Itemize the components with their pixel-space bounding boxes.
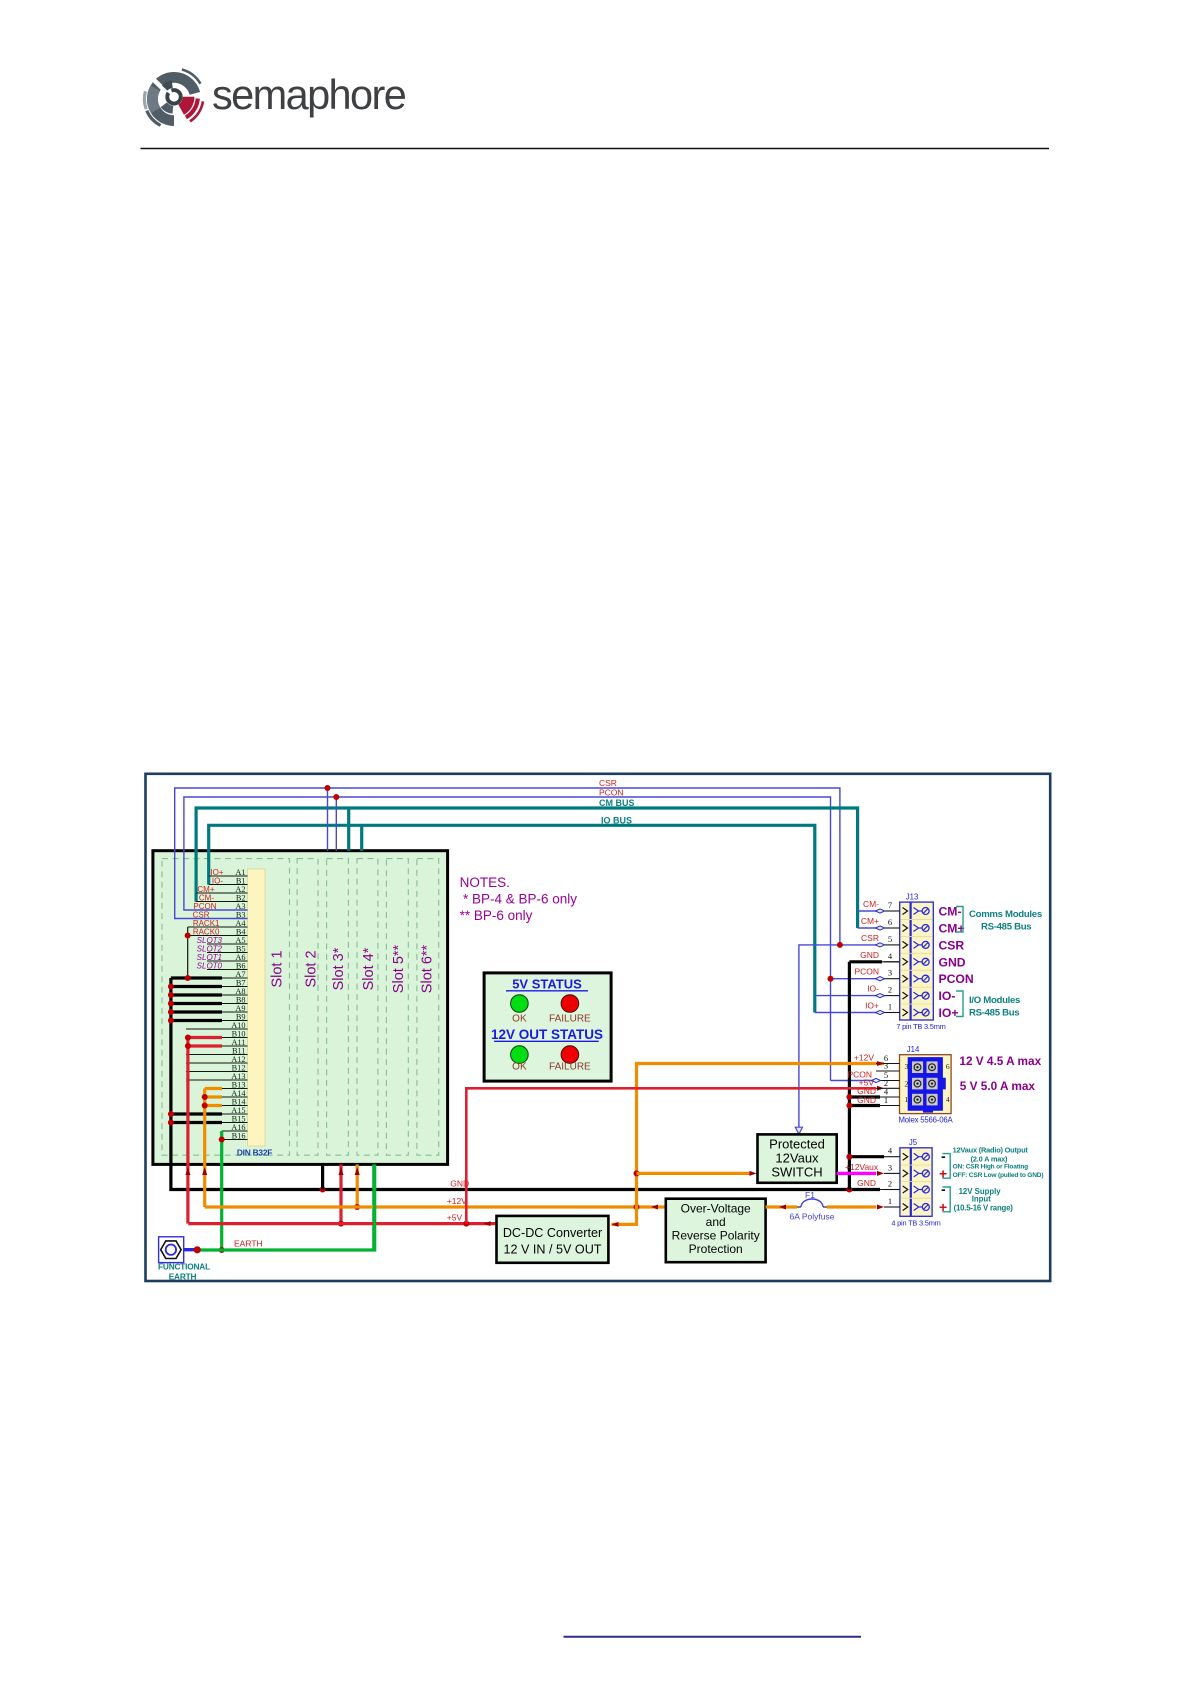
- block Over-Voltage and Reverse Polarity Protection: [666, 1199, 766, 1263]
- backplane pin A6 lead: [207, 960, 248, 962]
- bracket comms modules: [956, 907, 963, 933]
- svg-text:CSR: CSR: [599, 778, 617, 788]
- wire EARTH green horizontal: [197, 1164, 375, 1250]
- svg-text:GND: GND: [857, 1178, 876, 1188]
- svg-text:7: 7: [888, 900, 892, 910]
- svg-text:Over-Voltage: Over-Voltage: [681, 1202, 751, 1216]
- svg-text:I/O Modules: I/O Modules: [969, 995, 1020, 1006]
- slot 6 dashed outline: [417, 859, 439, 1156]
- connector J14 stub pin 3: [876, 1070, 900, 1072]
- connector J5 row pin 4: [884, 1156, 900, 1158]
- wire +5V to J14 pin2: [466, 1088, 876, 1223]
- backplane pin B2 lead: [196, 901, 247, 903]
- wire 12V input orange to J5 pin1: [827, 1205, 876, 1208]
- wire PCON drop to slots: [335, 797, 337, 851]
- wire IO- to J13: [815, 995, 884, 997]
- slot 4 dashed outline: [357, 859, 378, 1156]
- wire +12V orange vertical from B13: [203, 1089, 206, 1208]
- wire CM+ to J13: [858, 927, 884, 929]
- bus entry PCON: [876, 977, 885, 981]
- wire slot +12V vertical: [356, 1164, 359, 1207]
- svg-text:7 pin TB 3.5mm: 7 pin TB 3.5mm: [896, 1022, 945, 1031]
- backplane pin B12 lead: [186, 1071, 248, 1073]
- connector J14 pin cavity r2c1: [912, 1078, 923, 1090]
- backplane pin A2 lead: [196, 892, 247, 894]
- svg-text:RS-485 Bus: RS-485 Bus: [981, 922, 1031, 933]
- bus entry CSR: [876, 943, 885, 947]
- LED 12V OK green: [511, 1046, 529, 1064]
- backplane pin B14 lead (+12V orange): [205, 1104, 222, 1107]
- arrow 12V input into J5: [877, 1205, 884, 1210]
- wire +12V rail: [205, 1205, 666, 1208]
- wire GND trunk vertical right: [848, 962, 851, 1190]
- wire slot GND vertical: [321, 1164, 324, 1189]
- svg-text:+: +: [939, 1166, 947, 1182]
- slot 2 dashed outline: [297, 859, 318, 1156]
- slot 1 dashed outline: [162, 859, 290, 1156]
- svg-text:5V STATUS: 5V STATUS: [512, 977, 582, 992]
- svg-text:NOTES.: NOTES.: [460, 875, 510, 890]
- svg-text:IO-: IO-: [939, 989, 956, 1003]
- block DC-DC Converter: [497, 1216, 609, 1263]
- backplane pin B16 lead: [222, 1139, 248, 1141]
- bus entry CM+: [876, 926, 885, 930]
- wire EARTH green vertical from A16/B16: [220, 1131, 223, 1250]
- svg-text:OK: OK: [512, 1061, 527, 1072]
- bracket io modules: [956, 991, 963, 1017]
- svg-text:Protection: Protection: [689, 1242, 743, 1256]
- wire +5V rail: [188, 1222, 496, 1225]
- svg-text:* BP-4 & BP-6 only: * BP-4 & BP-6 only: [463, 892, 577, 907]
- arrow +5V rail from DC-DC: [484, 1221, 491, 1226]
- svg-text:Slot 4*: Slot 4*: [361, 947, 377, 990]
- svg-text:PCON: PCON: [854, 967, 879, 977]
- svg-text:Reverse Polarity: Reverse Polarity: [672, 1229, 760, 1243]
- svg-text:GND: GND: [939, 955, 966, 969]
- wire GND left trunk vertical: [171, 978, 880, 1190]
- backplane pin B1 lead: [209, 884, 248, 886]
- wire CM BUS drop to slots: [347, 808, 350, 851]
- backplane pin A8 lead (GND thick): [171, 993, 222, 996]
- svg-text:Molex 5566-06A: Molex 5566-06A: [899, 1115, 954, 1124]
- connector J14 pin cavity r1c2: [927, 1061, 938, 1073]
- backplane pin B3 lead (CSR): [175, 918, 248, 920]
- svg-text:B16: B16: [232, 1131, 246, 1140]
- svg-text:2: 2: [905, 1080, 909, 1089]
- backplane pin A12 lead: [186, 1062, 248, 1064]
- connector J14 pin cavity r2c2: [927, 1078, 938, 1090]
- svg-text:and: and: [706, 1215, 726, 1229]
- svg-text:DIN B32F: DIN B32F: [237, 1148, 272, 1158]
- svg-text:2: 2: [888, 1179, 892, 1189]
- backplane box: [153, 851, 448, 1165]
- svg-text:(10.5-16 V range): (10.5-16 V range): [954, 1203, 1014, 1212]
- svg-text:J13: J13: [906, 892, 919, 901]
- wire IO BUS drop to slots: [360, 825, 363, 851]
- backplane pin A9 lead (GND thick): [171, 1010, 222, 1013]
- svg-text:CM-: CM-: [863, 899, 879, 909]
- svg-text:(2.0 A max): (2.0 A max): [971, 1154, 1008, 1163]
- svg-text:OK: OK: [512, 1014, 527, 1025]
- svg-text:12 V IN / 5V OUT: 12 V IN / 5V OUT: [504, 1243, 602, 1257]
- svg-text:CM+: CM+: [861, 916, 879, 926]
- backplane pin A3 lead (PCON): [184, 909, 248, 911]
- connector J13 row IO+ pin 1: [884, 1012, 900, 1014]
- svg-text:FUNCTIONAL: FUNCTIONAL: [158, 1262, 210, 1272]
- wire PCON to J14: [831, 1080, 877, 1082]
- connector J14 blue shell: [908, 1057, 946, 1113]
- DIN B32F connector strip: [248, 869, 266, 1146]
- svg-text:** BP-6 only: ** BP-6 only: [460, 908, 533, 923]
- backplane pin A11 lead (+5V red): [188, 1044, 222, 1047]
- svg-text:EARTH: EARTH: [234, 1239, 263, 1249]
- svg-text:CSR: CSR: [861, 933, 879, 943]
- backplane pin B15 lead (GND thick): [171, 1121, 222, 1124]
- backplane pin A5 lead: [207, 943, 248, 945]
- connector J14 stub pin 6: [876, 1063, 900, 1065]
- svg-text:J14: J14: [907, 1045, 920, 1054]
- backplane pin A1 lead: [209, 875, 248, 877]
- svg-text:FAILURE: FAILURE: [549, 1061, 591, 1072]
- wire GND to J5 pin4: [849, 1155, 884, 1158]
- connector J13 row GND pin 4: [884, 961, 900, 963]
- wire CSR net to J13 and switch: [799, 945, 884, 1130]
- wire PCON net to J13: [831, 978, 885, 980]
- svg-text:1: 1: [888, 1002, 892, 1012]
- svg-text:Slot 6**: Slot 6**: [419, 944, 435, 993]
- svg-text:IO-: IO-: [867, 984, 879, 994]
- backplane pin B7 lead (GND thick): [171, 985, 222, 988]
- LED 12V FAILURE red: [561, 1046, 579, 1064]
- svg-text:12Vaux (Radio) Output: 12Vaux (Radio) Output: [953, 1145, 1029, 1154]
- wire earth stub blue: [184, 1248, 198, 1251]
- backplane pin B5 lead: [207, 952, 248, 954]
- slot 3 dashed outline: [327, 859, 349, 1156]
- svg-text:1: 1: [905, 1095, 909, 1104]
- svg-text:DC-DC Converter: DC-DC Converter: [503, 1226, 602, 1240]
- logo icon: [144, 70, 203, 126]
- svg-text:4: 4: [946, 1095, 950, 1104]
- backplane pin A13 lead: [186, 1079, 248, 1081]
- connector J14 pin cavity r1c1: [912, 1061, 923, 1073]
- bracket 12V supply input: [942, 1187, 950, 1212]
- connector J14 stub pin 4: [876, 1096, 900, 1098]
- wire CSR drop to slots: [327, 788, 329, 851]
- svg-text:F1: F1: [805, 1190, 815, 1200]
- block Protected 12Vaux SWITCH: [758, 1134, 837, 1182]
- fuse F1: [797, 1206, 801, 1208]
- backplane pin B10 lead (+5V red): [188, 1036, 222, 1039]
- connector J5 row pin 2: [884, 1189, 900, 1191]
- wire +12Vaux magenta to J5 pin3: [837, 1172, 876, 1175]
- svg-text:5: 5: [888, 934, 892, 944]
- wire CSR top bus: [175, 788, 840, 945]
- connector J5 row pin 3: [884, 1172, 900, 1174]
- svg-text:-: -: [941, 1181, 946, 1197]
- header rule: [141, 148, 1050, 150]
- wire CM- to J13: [858, 910, 884, 912]
- connector J5 body: [900, 1148, 932, 1217]
- svg-text:PCON: PCON: [939, 972, 974, 986]
- svg-text:1: 1: [884, 1095, 888, 1105]
- connector J14 pin cavity r3c2: [927, 1094, 938, 1106]
- svg-text:+: +: [939, 1199, 947, 1215]
- svg-text:6: 6: [946, 1062, 950, 1071]
- wire +12V branch to protected switch: [637, 1172, 751, 1175]
- backplane pin B9 lead (GND thick): [171, 1019, 222, 1022]
- connector J14 body: [900, 1055, 952, 1114]
- bus entry PCON J14: [872, 1078, 881, 1082]
- bus entry CM-: [876, 909, 885, 913]
- functional earth symbol: [159, 1237, 184, 1263]
- wire IO BUS: [209, 825, 815, 1012]
- arrow +12Vaux into J5: [877, 1171, 884, 1176]
- svg-text:EARTH: EARTH: [169, 1272, 197, 1282]
- svg-text:3: 3: [888, 968, 892, 978]
- svg-text:FAILURE: FAILURE: [549, 1014, 591, 1025]
- arrow CSR into switch (open): [795, 1127, 802, 1134]
- backplane pin A10 lead: [186, 1028, 248, 1030]
- svg-text:IO+: IO+: [939, 1006, 959, 1020]
- svg-text:OFF: CSR Low (pulled to GND): OFF: CSR Low (pulled to GND): [953, 1172, 1044, 1179]
- backplane pin A16 lead: [222, 1130, 248, 1132]
- status indicator box: [484, 973, 611, 1081]
- svg-text:4 pin TB 3.5mm: 4 pin TB 3.5mm: [891, 1219, 940, 1228]
- arrow +12V rail into overvoltage box: [651, 1205, 658, 1210]
- svg-text:PCON: PCON: [599, 788, 624, 798]
- svg-text:6A Polyfuse: 6A Polyfuse: [790, 1212, 835, 1222]
- backplane pin B4 lead: [188, 935, 248, 937]
- svg-text:GND: GND: [860, 950, 879, 960]
- bus entry IO-: [876, 994, 885, 998]
- arrow +12V into J14: [877, 1061, 884, 1066]
- svg-text:semaphore: semaphore: [212, 71, 406, 118]
- wire 12V input from overvoltage to F1: [766, 1205, 797, 1208]
- svg-text:SLOT0: SLOT0: [197, 962, 223, 971]
- svg-text:2: 2: [888, 985, 892, 995]
- LED 5V FAILURE red: [561, 995, 579, 1013]
- backplane pin A15 lead (GND thick): [171, 1112, 222, 1115]
- connector J13 row CSR pin 5: [884, 944, 900, 946]
- svg-text:SWITCH: SWITCH: [771, 1165, 822, 1180]
- slot 5 dashed outline: [386, 859, 408, 1156]
- wire GND rail tail to J5 pin2: [880, 1189, 900, 1191]
- backplane pin B13 lead (+12V orange): [205, 1087, 222, 1090]
- arrow 12V into overvoltage right: [779, 1205, 786, 1210]
- svg-text:Slot 5**: Slot 5**: [391, 944, 407, 993]
- LED 5V OK green: [511, 995, 529, 1013]
- wire GND to J14 pin4: [849, 1095, 880, 1098]
- arrow +12V into DC-DC: [612, 1222, 619, 1227]
- connector J13 body: [900, 902, 934, 1020]
- svg-text:IO+: IO+: [865, 1001, 879, 1011]
- backplane pin B11 lead: [186, 1054, 248, 1056]
- svg-text:CSR: CSR: [939, 938, 965, 952]
- svg-text:6: 6: [888, 917, 892, 927]
- arrow +12V into backplane: [202, 1167, 207, 1175]
- svg-text:GND: GND: [857, 1095, 876, 1105]
- svg-text:CM BUS: CM BUS: [599, 798, 635, 808]
- connector J14 stub pin 1: [876, 1105, 900, 1107]
- wire PCON top bus: [184, 797, 831, 1081]
- svg-text:Slot 3*: Slot 3*: [331, 947, 347, 990]
- connector J13 row IO- pin 2: [884, 995, 900, 997]
- footer rule: [564, 1636, 862, 1638]
- arrow +5V into backplane: [185, 1167, 190, 1175]
- svg-text:5 V 5.0 A max: 5 V 5.0 A max: [960, 1079, 1036, 1093]
- wire slot EARTH vertical: [372, 1164, 375, 1250]
- connector J14 stub pin 2: [876, 1087, 900, 1089]
- svg-text:CM+: CM+: [939, 922, 965, 936]
- svg-text:RS-485 Bus: RS-485 Bus: [969, 1008, 1019, 1019]
- svg-text:3: 3: [905, 1062, 909, 1071]
- bus entry IO+: [876, 1010, 885, 1014]
- backplane pin A14 lead (+12V orange): [205, 1095, 222, 1098]
- svg-text:Slot 1: Slot 1: [269, 950, 285, 987]
- connector J13 row PCON pin 3: [884, 978, 900, 980]
- svg-text:Protected: Protected: [769, 1137, 825, 1152]
- svg-text:ON: CSR High or Floating: ON: CSR High or Floating: [953, 1164, 1029, 1171]
- arrow slot +5V into backplane: [339, 1167, 344, 1175]
- svg-text:12Vaux: 12Vaux: [775, 1151, 819, 1166]
- connector J13 row CM+ pin 6: [884, 927, 900, 929]
- wire +5V red vertical from B10/A11: [186, 1038, 189, 1224]
- arrow +12V into protected switch: [750, 1171, 757, 1176]
- arrow slot +12V into backplane: [355, 1167, 360, 1175]
- svg-text:IO BUS: IO BUS: [601, 815, 632, 825]
- wire IO+ to J13: [815, 1012, 884, 1014]
- svg-text:Comms Modules: Comms Modules: [969, 909, 1042, 920]
- svg-text:-: -: [941, 1148, 946, 1164]
- svg-text:3: 3: [888, 1162, 892, 1172]
- svg-text:+5V: +5V: [447, 1212, 463, 1222]
- wire GND to J14 pin1: [849, 1104, 880, 1107]
- connector J5 row pin 1: [884, 1206, 900, 1208]
- wire GND to J13 pin4: [849, 960, 882, 963]
- arrow +5V into J14: [877, 1086, 884, 1091]
- connector J14 stub pin 5: [876, 1080, 900, 1082]
- connector J14 pin cavity r3c1: [912, 1094, 923, 1106]
- backplane pin A4 lead: [188, 926, 248, 928]
- backplane pin B8 lead (GND thick): [171, 1002, 222, 1005]
- backplane pin A7 lead (GND thick): [171, 976, 222, 979]
- wire CM BUS: [196, 808, 858, 928]
- wire +12V from J14 to rail and boxes: [612, 1064, 885, 1225]
- svg-text:12V OUT STATUS: 12V OUT STATUS: [491, 1027, 603, 1042]
- svg-text:+12V: +12V: [447, 1196, 467, 1206]
- svg-text:1: 1: [888, 1196, 892, 1206]
- bracket 12Vaux output: [942, 1154, 950, 1179]
- svg-text:Input: Input: [972, 1195, 991, 1204]
- svg-text:12 V 4.5 A max: 12 V 4.5 A max: [959, 1054, 1041, 1068]
- wire RACK vertical: [187, 927, 189, 978]
- svg-text:3: 3: [884, 1061, 888, 1071]
- svg-text:Slot 2: Slot 2: [303, 950, 319, 987]
- wire slot +5V vertical: [339, 1164, 342, 1223]
- svg-text:+12V: +12V: [854, 1053, 874, 1063]
- backplane pin B6 lead: [207, 969, 248, 971]
- diagram outer frame: [146, 774, 1051, 1281]
- svg-text:+12Vaux: +12Vaux: [845, 1162, 879, 1172]
- connector J13 row CM- pin 7: [884, 910, 900, 912]
- svg-text:J5: J5: [909, 1138, 918, 1147]
